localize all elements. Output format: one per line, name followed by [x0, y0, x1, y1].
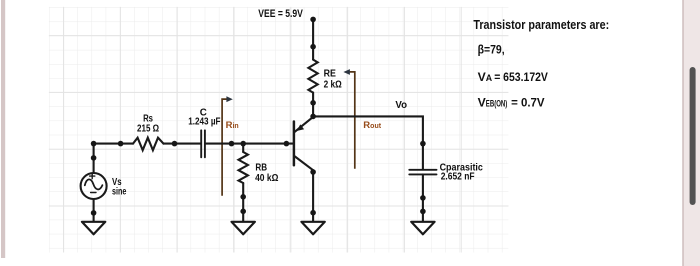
svg-text:Transistor parameters are:: Transistor parameters are: [473, 18, 609, 32]
wire Rs to capacitor C [164, 143, 201, 145]
source Vs circle [81, 173, 107, 199]
probe Rin arrowhead [226, 96, 232, 102]
node left of Rs [118, 141, 124, 147]
node above Vs circle [91, 155, 97, 161]
ground under collector [301, 222, 324, 235]
node emitter [310, 114, 316, 120]
wire RB bottom to ground [242, 183, 244, 222]
wire capacitor C to base [206, 143, 293, 145]
svg-text:RB: RB [255, 162, 267, 173]
node below Vs circle [91, 210, 97, 216]
left window edge bar [1, 0, 5, 258]
probe Rout line [350, 72, 355, 169]
ground under Cparasitic [411, 222, 434, 235]
resistor Rs [133, 138, 164, 151]
resistor RE [308, 60, 317, 93]
wire source branch [93, 144, 95, 173]
transistor Q1 collector [295, 156, 313, 170]
node base [284, 141, 290, 147]
probe Rout arrowhead [343, 69, 350, 75]
node Cparasitic above ground [420, 209, 426, 215]
scrollbar thumb [690, 67, 696, 205]
node right of Rs [172, 141, 178, 147]
svg-text:β=79,: β=79, [478, 43, 505, 57]
svg-text:A: A [486, 73, 493, 83]
node corner above Vs [91, 141, 97, 147]
svg-text:1.243 µF: 1.243 µF [188, 117, 220, 128]
node right of C [229, 141, 235, 147]
source Vs minus [91, 192, 96, 194]
wire main input line [94, 143, 133, 145]
svg-text:RE: RE [324, 68, 337, 79]
wire Vs bottom to ground [93, 199, 95, 222]
wire VEE top to RE [312, 19, 314, 59]
svg-text:= 653.172V: = 653.172V [494, 70, 548, 84]
wire Vo horizontal [313, 116, 423, 169]
svg-text:215 Ω: 215 Ω [137, 123, 159, 134]
node below RE [310, 100, 316, 106]
svg-text:= 0.7V: = 0.7V [511, 96, 545, 110]
ground under Vs [82, 222, 105, 235]
transistor Q1 emitter arrow [297, 124, 305, 131]
node below Cparasitic [420, 195, 426, 201]
svg-text:sine: sine [112, 187, 127, 198]
wire collector to ground [312, 170, 314, 221]
wire RB branch [242, 144, 244, 152]
svg-text:EB(ON): EB(ON) [486, 99, 508, 109]
svg-text:Vo: Vo [395, 99, 407, 111]
svg-text:40 kΩ: 40 kΩ [255, 173, 278, 184]
ground under RB [232, 222, 255, 235]
scrollbar track border [682, 0, 684, 266]
node collector above ground [310, 210, 316, 216]
probe Rin line [222, 99, 227, 196]
node RB junction [240, 141, 246, 147]
svg-text:2.652 nF: 2.652 nF [441, 172, 475, 183]
node Vo above Cparasitic [420, 141, 426, 147]
transistor Q1 base bar [293, 122, 296, 166]
wire RE bottom to emitter node [312, 93, 314, 117]
svg-text:VEE = 5.9V: VEE = 5.9V [258, 8, 303, 20]
svg-text:2 kΩ: 2 kΩ [324, 80, 342, 91]
capacitor C [200, 130, 202, 157]
node RB above ground [240, 209, 246, 215]
node above RE [310, 44, 316, 50]
wire Cparasitic bottom to ground [422, 174, 424, 221]
node collector [310, 169, 316, 175]
scrollbar track [683, 0, 700, 266]
transistor Q1 emitter [295, 117, 314, 132]
capacitor Cparasitic [409, 169, 436, 171]
source Vs plus [90, 174, 95, 179]
resistor RB [239, 152, 248, 183]
source Vs sine [85, 179, 103, 189]
node below RB [240, 194, 246, 200]
node VEE top [310, 17, 316, 23]
